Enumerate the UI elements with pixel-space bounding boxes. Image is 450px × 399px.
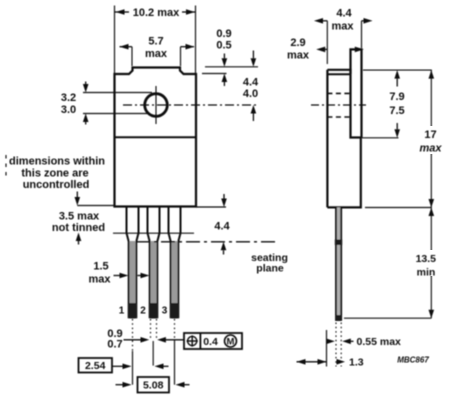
svg-text:5.7: 5.7	[148, 36, 163, 48]
svg-text:7.5: 7.5	[389, 105, 404, 117]
svg-text:3.0: 3.0	[61, 104, 76, 116]
svg-text:4.4: 4.4	[243, 77, 259, 89]
svg-text:4.4: 4.4	[336, 8, 352, 20]
svg-text:plane: plane	[256, 263, 284, 275]
svg-text:1.3: 1.3	[349, 357, 364, 369]
svg-text:max: max	[287, 50, 310, 62]
svg-text:0.9: 0.9	[216, 28, 231, 40]
svg-text:max: max	[88, 274, 111, 286]
svg-text:0.55 max: 0.55 max	[357, 336, 402, 348]
svg-text:MBC867: MBC867	[397, 356, 429, 365]
svg-text:dimensions within: dimensions within	[9, 156, 105, 168]
svg-text:4.4: 4.4	[214, 221, 230, 233]
svg-text:17: 17	[424, 129, 436, 141]
svg-text:M: M	[227, 337, 235, 348]
svg-text:2: 2	[140, 306, 146, 317]
svg-text:max: max	[419, 143, 442, 155]
svg-text:4.0: 4.0	[243, 88, 258, 100]
svg-text:0.7: 0.7	[107, 339, 122, 351]
svg-text:3: 3	[162, 306, 168, 317]
svg-text:1.5: 1.5	[93, 261, 108, 273]
svg-text:2.9: 2.9	[290, 37, 305, 49]
svg-text:13.5: 13.5	[416, 253, 437, 265]
svg-text:0.4: 0.4	[203, 336, 218, 348]
svg-text:2.54: 2.54	[85, 360, 106, 372]
svg-text:7.9: 7.9	[389, 91, 404, 103]
svg-text:1: 1	[119, 306, 125, 317]
svg-text:max: max	[145, 48, 168, 60]
svg-text:0.5: 0.5	[216, 40, 231, 52]
svg-text:3.5 max: 3.5 max	[59, 211, 100, 223]
svg-text:max: max	[331, 21, 354, 33]
svg-text:10.2 max: 10.2 max	[133, 7, 180, 19]
svg-text:5.08: 5.08	[143, 380, 164, 392]
svg-text:3.2: 3.2	[61, 92, 76, 104]
svg-text:min: min	[417, 267, 436, 279]
svg-text:not tinned: not tinned	[52, 222, 105, 234]
svg-text:uncontrolled: uncontrolled	[23, 179, 90, 191]
svg-text:this zone are: this zone are	[21, 168, 88, 180]
